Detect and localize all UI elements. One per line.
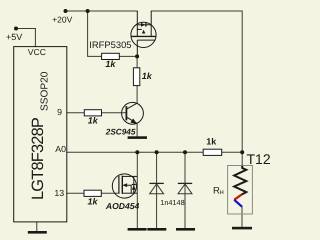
body arrow left [122, 183, 127, 187]
ground (2SC945 emitter) [128, 136, 147, 139]
ground (D2) [176, 228, 195, 231]
wire AOD454 vertical drain-source [136, 152, 138, 228]
heater RH box [228, 166, 253, 215]
svg-text:1k: 1k [88, 115, 99, 125]
wire diode D1 branch [156, 152, 158, 228]
heater element zigzag black [234, 166, 246, 195]
emitter arrow [130, 118, 137, 123]
transistor Q2 IRFP5305 P-MOSFET [131, 11, 156, 56]
svg-text:SSOP20: SSOP20 [39, 71, 50, 111]
wire T12 node down to heater [241, 152, 243, 165]
node junction A0/D1 [155, 150, 159, 154]
svg-text:1n4148: 1n4148 [160, 198, 184, 207]
resistor R1 1k (gate pull-up) [102, 53, 120, 59]
ground (heater) [232, 227, 252, 230]
svg-text:1k: 1k [87, 197, 98, 207]
wire R5 to T12 node [222, 151, 243, 153]
wire R4 bottom to Q1 collector [136, 86, 138, 104]
heater element blue segment [234, 200, 242, 207]
wire +20V down to R1 [88, 11, 102, 56]
svg-text:1k: 1k [142, 71, 153, 81]
resistor R3 1k (AOD gate) [84, 190, 101, 196]
body diode bar [132, 184, 136, 186]
wire diode D2 branch [184, 152, 186, 228]
body diode cathode bar [145, 23, 147, 27]
svg-text:AOD454: AOD454 [105, 201, 140, 211]
wire pin 9 to R2 [67, 112, 85, 114]
svg-text:VCC: VCC [28, 47, 46, 57]
channel [121, 176, 123, 194]
body stub [137, 28, 142, 30]
wire heater bottom to ground [241, 207, 243, 227]
wire +5V to VCC [16, 29, 35, 47]
wire +20V rail top [66, 10, 138, 12]
svg-text:T12: T12 [247, 151, 271, 167]
wire pin 13 to R3 [67, 192, 84, 194]
diode D1 1n4148 [149, 183, 163, 193]
node +5V terminal [14, 27, 18, 31]
svg-text:1k: 1k [105, 59, 116, 69]
node junction +20V/R1 [86, 9, 90, 13]
channel [131, 35, 156, 37]
ground (IC) [28, 231, 47, 234]
diode D2 1n4148 [178, 183, 192, 193]
wire R2 to Q1 base [102, 112, 127, 114]
drain stub [122, 175, 137, 177]
svg-text:13: 13 [54, 188, 64, 198]
resistor R4 1k (vertical) [133, 68, 139, 86]
emitter line [126, 117, 137, 124]
drain lead [150, 11, 152, 36]
resistor R2 1k (base) [84, 110, 101, 116]
svg-text:9: 9 [57, 107, 62, 117]
svg-text:+20V: +20V [52, 14, 72, 24]
ground (AOD454) [128, 228, 147, 231]
svg-text:1k: 1k [206, 137, 217, 147]
collector line [126, 103, 137, 109]
svg-text:2SC945: 2SC945 [105, 127, 136, 136]
transistor Q1 2SC945 NPN [122, 102, 144, 124]
wire drain rail to heater [151, 11, 242, 152]
IC U1 LGT8F328P body [14, 47, 67, 222]
body diode line [133, 176, 135, 193]
source lead [136, 11, 138, 36]
ground (D1) [147, 228, 166, 231]
node junction gate/R1/R4 [135, 54, 139, 58]
wire IC ground lead [36, 222, 38, 231]
gate plate [137, 39, 155, 41]
base bar [125, 106, 127, 120]
wire Q1 emitter to ground [136, 124, 138, 137]
body connection [127, 185, 131, 193]
source stub [122, 192, 137, 194]
body arrow up [142, 30, 146, 34]
body diode arrow [141, 23, 145, 27]
node junction A0/AOD454 [135, 150, 139, 154]
wire gate node to R4 top [136, 56, 138, 67]
svg-text:+5V: +5V [6, 32, 22, 42]
transistor Q3 AOD454 N-MOSFET [112, 174, 137, 198]
heater element red segment [234, 195, 241, 200]
svg-text:A0: A0 [55, 144, 66, 154]
wire R1 to gate node [119, 55, 137, 57]
body diode line [137, 24, 151, 26]
node junction A0/D2 [183, 150, 187, 154]
gate plate [118, 176, 120, 194]
node junction T12 [240, 150, 244, 154]
gate lead inside [136, 40, 138, 56]
wire R3 to AOD454 gate [101, 192, 119, 194]
body diode arrow up [132, 185, 136, 190]
svg-text:IRFP5305: IRFP5305 [89, 39, 131, 50]
wire A0 line [67, 151, 203, 153]
svg-text:LGT8F328P: LGT8F328P [29, 117, 47, 200]
resistor R5 1k (A0 sense) [203, 149, 222, 155]
node +20V terminal [64, 9, 68, 13]
